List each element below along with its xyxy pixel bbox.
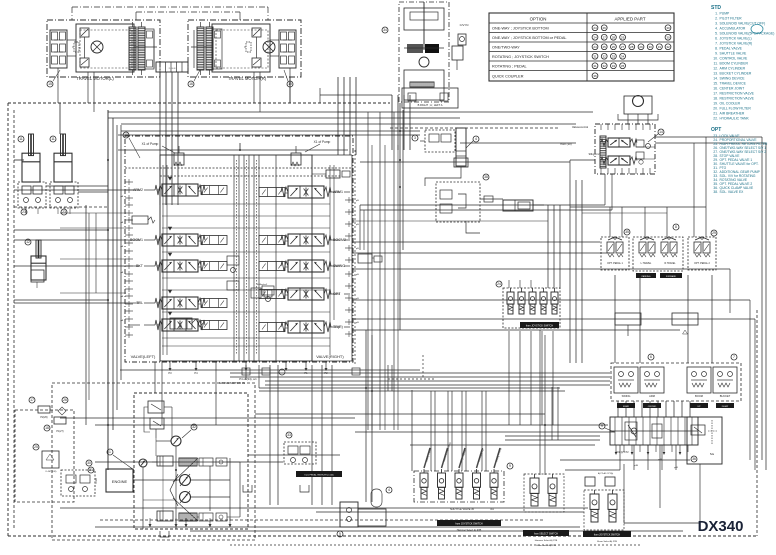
- accumulator 4a: [456, 128, 466, 166]
- svg-text:24: 24: [593, 26, 597, 30]
- svg-text:6: 6: [650, 355, 652, 359]
- svg-text:PARKING: PARKING: [642, 275, 651, 278]
- svg-text:SOLENOID VALVE(5PC/PACKAGE): SOLENOID VALVE(5PC/PACKAGE): [720, 32, 775, 36]
- accumulator 4b: [371, 489, 382, 507]
- svg-text:P3: P3: [168, 371, 172, 375]
- pedal valve 8 block: [402, 88, 458, 108]
- ref 38: [483, 174, 489, 180]
- hammer shuttle unit 4: [473, 473, 481, 487]
- svg-text:BOOM1: BOOM1: [130, 238, 143, 242]
- svg-text:DX340: DX340: [698, 518, 744, 535]
- svg-text:SWAY: SWAY: [623, 405, 630, 408]
- svg-text:TR(R): TR(R): [333, 325, 343, 329]
- wire sol block feeds: [547, 205, 549, 288]
- spool right TR(R): [288, 321, 324, 333]
- svg-text:10: 10: [124, 133, 128, 137]
- svg-text:UP: UP: [697, 406, 701, 408]
- valve inner right rail: [329, 165, 331, 355]
- svg-text:90kg/cm²: 90kg/cm²: [589, 152, 600, 156]
- lock valve 23b: [50, 182, 78, 208]
- rotating sol valve 33: [286, 432, 292, 438]
- svg-text:11: 11: [19, 137, 23, 141]
- table circles row 1: [592, 25, 598, 31]
- spool right BOOM2: [288, 234, 324, 246]
- hammer shuttle box: [414, 471, 504, 502]
- svg-text:14: 14: [659, 130, 663, 134]
- wire mid bottom bus: [95, 424, 608, 426]
- wire valve top feeds: [118, 149, 348, 151]
- svg-text:38: 38: [484, 175, 488, 179]
- svg-text:9: 9: [339, 532, 341, 536]
- swing spool B: [608, 156, 630, 165]
- svg-text:TRAVEL MOTOR(R): TRAVEL MOTOR(R): [228, 76, 267, 81]
- svg-text:23: 23: [22, 210, 26, 214]
- swing motor: [633, 96, 644, 107]
- svg-text:36: 36: [593, 74, 597, 78]
- svg-text:24: 24: [593, 45, 597, 49]
- ref 24b: [496, 281, 502, 287]
- svg-text:52a: 52a: [710, 453, 715, 456]
- wire outer dashed envelope left: [7, 103, 9, 536]
- rotating device linkage: [404, 8, 444, 30]
- svg-text:PEDAL VALVE: PEDAL VALVE: [720, 47, 743, 51]
- spool left BOOM1: [162, 234, 198, 246]
- swing check valves: [636, 140, 644, 147]
- right port stubs: [345, 199, 353, 201]
- wire travel R lines down: [337, 77, 339, 155]
- wire valve right exits: [352, 241, 600, 243]
- swing spool A: [608, 138, 630, 147]
- pilot relief top: [148, 401, 164, 413]
- wire valve to bottom verticals: [269, 365, 271, 505]
- manifold block B: [672, 313, 698, 325]
- hammer shuttle unit 2: [438, 473, 446, 487]
- pump assembly box: [134, 393, 248, 529]
- spool left TRL: [162, 297, 198, 309]
- svg-text:34: 34: [621, 54, 625, 58]
- spool right OPT: [288, 288, 324, 300]
- table circles row 2: [592, 34, 598, 40]
- main valve right frame: [275, 155, 277, 361]
- svg-text:RESTRICTION VALVE: RESTRICTION VALVE: [720, 97, 755, 101]
- regulator 1: [157, 456, 173, 466]
- svg-text:QUICK COUPLER: QUICK COUPLER: [492, 74, 524, 78]
- svg-text:8: 8: [675, 225, 677, 229]
- wire right mid verticals: [569, 180, 571, 363]
- svg-text:17.: 17.: [713, 92, 718, 96]
- rotating device cylinders: [407, 44, 423, 53]
- wire select feeds down: [539, 330, 541, 475]
- svg-text:1: 1: [109, 450, 111, 454]
- svg-text:8.: 8.: [715, 47, 718, 51]
- svg-text:31: 31: [658, 45, 662, 49]
- svg-text:34: 34: [612, 64, 616, 68]
- svg-text:PILOT FILTER: PILOT FILTER: [720, 17, 743, 21]
- joystick unit BUCKET: [713, 367, 737, 393]
- svg-text:B RIGHT ; A ; LEFT A: B RIGHT ; A ; LEFT A: [418, 103, 443, 107]
- svg-text:25: 25: [603, 45, 607, 49]
- negative control relief: [251, 288, 261, 298]
- ref 4b: [386, 487, 392, 493]
- select label box: [523, 530, 569, 536]
- svg-text:1.: 1.: [715, 12, 718, 16]
- ref 16: [188, 81, 194, 87]
- spool left travel-straight: [162, 319, 198, 331]
- pilot pump: [139, 459, 147, 467]
- svg-text:24: 24: [593, 35, 597, 39]
- ref 9r: [599, 423, 605, 429]
- svg-text:OPT. PEDAL 1: OPT. PEDAL 1: [607, 262, 623, 265]
- label parking fwd: [636, 273, 656, 278]
- svg-text:22.: 22.: [713, 117, 718, 121]
- svg-text:ARM: ARM: [649, 394, 655, 398]
- wire horizontals into swing: [108, 111, 593, 113]
- svg-text:P1(27): P1(27): [56, 430, 63, 433]
- ref 4a: [473, 136, 479, 142]
- tank symbols bottom: [243, 485, 252, 492]
- rotating device lower body: [404, 70, 444, 100]
- svg-text:17: 17: [30, 398, 34, 402]
- annotation circle top right: [751, 25, 763, 34]
- spool left BKT: [162, 260, 198, 272]
- gear pump 32: [171, 436, 181, 446]
- shuttle grid pins: [615, 445, 617, 452]
- wire double bus y387: [259, 387, 560, 389]
- pump wires: [133, 479, 179, 481]
- main relief valve right: [291, 153, 301, 165]
- sol package spool 2: [518, 292, 525, 304]
- solenoid cutoff valve 3: [425, 130, 455, 152]
- regulator 2: [157, 511, 173, 521]
- rotating device motor circle: [419, 57, 429, 67]
- svg-text:38.: 38.: [713, 190, 718, 194]
- svg-text:33: 33: [287, 433, 291, 437]
- svg-text:SWING: SWING: [622, 394, 631, 398]
- wire dashed mid-left horizontal: [14, 206, 108, 208]
- svg-text:4: 4: [475, 137, 477, 141]
- main valve main frame: [160, 155, 312, 361]
- restriction cylinder: [503, 200, 533, 211]
- svg-text:OPT. PEDAL 2: OPT. PEDAL 2: [694, 262, 710, 265]
- pump swash links: [170, 474, 178, 506]
- joystick unit SWING: [614, 367, 638, 393]
- svg-text:ONE-WAY ; JOYSTICK BOTTOM: ONE-WAY ; JOYSTICK BOTTOM: [492, 26, 549, 30]
- br outer box: [584, 490, 624, 530]
- ref 8: [673, 224, 679, 230]
- swing port pins: [600, 124, 602, 130]
- svg-text:HYDRAULIC TANK: HYDRAULIC TANK: [720, 117, 750, 121]
- svg-text:ARM1: ARM1: [333, 190, 343, 194]
- main relief valve left: [174, 153, 184, 165]
- svg-text:FULL FLOW FILTER: FULL FLOW FILTER: [720, 107, 752, 111]
- svg-text:APPLIED PART: APPLIED PART: [614, 17, 645, 22]
- svg-text:CONTROL VALVE: CONTROL VALVE: [720, 57, 749, 61]
- svg-text:from JOYSTICK SWITCH: from JOYSTICK SWITCH: [526, 325, 554, 328]
- below valve check symbols: [242, 368, 250, 375]
- aux valve right of valve: [358, 254, 372, 263]
- wire outer dashed envelope bottom: [8, 535, 757, 537]
- svg-text:24: 24: [497, 282, 501, 286]
- ref 10: [123, 132, 129, 138]
- svg-text:35: 35: [621, 64, 625, 68]
- svg-text:R.TRAVEL: R.TRAVEL: [664, 262, 676, 265]
- svg-text:X1 of Pump: X1 of Pump: [314, 140, 331, 144]
- svg-text:OPTION: OPTION: [530, 17, 547, 22]
- wire right bottom links: [623, 464, 625, 523]
- center joint box: [156, 62, 188, 72]
- svg-text:30: 30: [666, 26, 670, 30]
- cv filter: [458, 34, 466, 45]
- br shuttle units: [590, 494, 599, 509]
- shuttle grid box: [610, 417, 698, 445]
- svg-text:26: 26: [612, 45, 616, 49]
- svg-text:30: 30: [649, 45, 653, 49]
- ref 29: [711, 230, 717, 236]
- svg-text:ARM CYLINDER: ARM CYLINDER: [720, 67, 746, 71]
- cv valve: [452, 46, 463, 60]
- valve mid check cluster: [227, 256, 239, 265]
- svg-text:16.: 16.: [713, 87, 718, 91]
- rotating label box: [296, 471, 342, 477]
- table circles row 6: [592, 73, 598, 79]
- ref 19: [287, 81, 293, 87]
- opt pedal valve 1 block: [601, 237, 629, 270]
- svg-text:34: 34: [383, 28, 387, 32]
- svg-text:D-N/T(L/R): D-N/T(L/R): [46, 471, 57, 473]
- main pump 2: [180, 492, 191, 503]
- joystick unit ARM: [640, 367, 664, 393]
- svg-text:7.: 7.: [715, 42, 718, 46]
- svg-text:3: 3: [414, 136, 416, 140]
- ref 15: [47, 81, 53, 87]
- svg-text:12: 12: [26, 240, 30, 244]
- svg-text:DUMP: DUMP: [722, 406, 729, 408]
- sol valve 38 block: [436, 182, 480, 222]
- svg-text:9: 9: [509, 464, 511, 468]
- svg-text:SOL Q/V P2: SOL Q/V P2: [615, 451, 629, 454]
- ref 34t: [382, 27, 388, 33]
- shuttle grid internals: [614, 417, 616, 445]
- svg-text:9: 9: [601, 424, 603, 428]
- svg-text:ONE/TWO-WAY: ONE/TWO-WAY: [492, 45, 520, 49]
- restriction valve 17: [29, 397, 35, 403]
- svg-text:VALVE(RIGHT): VALVE(RIGHT): [316, 354, 344, 359]
- svg-text:25: 25: [34, 445, 38, 449]
- svg-text:ROTATING ; PEDAL: ROTATING ; PEDAL: [492, 64, 527, 68]
- svg-text:5.: 5.: [715, 32, 718, 36]
- svg-text:29: 29: [621, 35, 625, 39]
- svg-text:X1 of Pump: X1 of Pump: [142, 142, 159, 146]
- svg-text:29: 29: [639, 45, 643, 49]
- valve internal horizontals: [162, 203, 330, 205]
- svg-text:P1: P1: [304, 371, 308, 375]
- valve internal vertical pump lines: [233, 155, 235, 361]
- svg-text:p4B: p4B: [634, 465, 638, 467]
- svg-text:STD: STD: [711, 5, 721, 11]
- svg-text:20.: 20.: [713, 107, 718, 111]
- svg-text:30: 30: [87, 461, 91, 465]
- swing lines up: [627, 114, 629, 124]
- svg-text:BOOM2: BOOM2: [333, 238, 346, 242]
- wire bottom bus y505: [60, 507, 588, 509]
- wire top assembly lines down: [391, 95, 393, 150]
- svg-text:SHUTTLE VALVE: SHUTTLE VALVE: [720, 52, 748, 56]
- svg-text:ACCUMULATOR: ACCUMULATOR: [720, 27, 746, 31]
- svg-text:from PEDAL SWITCH for (34): from PEDAL SWITCH for (34): [305, 474, 334, 477]
- svg-text:35: 35: [625, 230, 629, 234]
- option table row lines: [489, 22, 674, 24]
- wire joystick to grid: [617, 401, 619, 417]
- svg-text:P4: P4: [194, 371, 198, 375]
- sol package spool 3: [529, 292, 536, 304]
- wire left cylinder feeds: [14, 159, 24, 161]
- svg-text:4.: 4.: [715, 27, 718, 31]
- svg-text:BKT: BKT: [136, 264, 144, 268]
- svg-text:4: 4: [388, 488, 390, 492]
- spool right ARM1: [288, 186, 324, 198]
- one-two select 26: [62, 397, 68, 403]
- wire shuttle feeds down: [430, 391, 432, 471]
- wire below valve ports: [120, 369, 420, 371]
- hammer shuttle unit 3: [455, 473, 463, 487]
- svg-text:15.: 15.: [713, 82, 718, 86]
- joystick assembly box: [611, 363, 741, 401]
- svg-text:SWING DEVICE: SWING DEVICE: [720, 77, 746, 81]
- svg-text:SWING: SWING: [333, 264, 345, 268]
- svg-text:29: 29: [712, 231, 716, 235]
- svg-text:6.: 6.: [715, 37, 718, 41]
- svg-text:10.: 10.: [713, 57, 718, 61]
- sol package spool 4: [540, 292, 547, 304]
- left port stubs: [125, 181, 133, 183]
- ref 35: [624, 229, 630, 235]
- svg-text:9.: 9.: [715, 52, 718, 56]
- svg-text:PUMP: PUMP: [720, 12, 731, 16]
- ref 11a: [18, 136, 24, 142]
- svg-text:BUCKET CYLINDER: BUCKET CYLINDER: [720, 72, 752, 76]
- wire acc drop: [425, 167, 461, 186]
- svg-text:11: 11: [51, 137, 55, 141]
- svg-text:BOOM: BOOM: [695, 394, 703, 398]
- svg-text:AIR BREATHER: AIR BREATHER: [720, 112, 745, 116]
- table circles row 3: [592, 44, 598, 50]
- ref 7: [731, 354, 737, 360]
- wire envelope right: [756, 310, 758, 536]
- ref 11b: [50, 136, 56, 142]
- arm cylinder: [38, 240, 40, 258]
- svg-text:18.: 18.: [713, 97, 718, 101]
- svg-text:SOL. VALVE EX: SOL. VALVE EX: [720, 190, 745, 194]
- boom cylinder 1: [30, 134, 32, 156]
- svg-text:31: 31: [593, 64, 597, 68]
- svg-text:from SELECT SWITCH: from SELECT SWITCH: [534, 533, 558, 536]
- wire joystick col verticals: [614, 275, 616, 363]
- rotating device box: [399, 2, 449, 102]
- svg-text:340kg/cm²: 340kg/cm²: [257, 283, 267, 286]
- ref 12: [25, 239, 31, 245]
- svg-text:CROWD: CROWD: [648, 406, 657, 408]
- left lower dashed box: [15, 410, 74, 502]
- svg-text:SHUTTLE VALVE 30: SHUTTLE VALVE 30: [450, 507, 475, 511]
- svg-text:26: 26: [63, 398, 67, 402]
- svg-text:OIL COOLER: OIL COOLER: [720, 102, 741, 106]
- svg-text:2.: 2.: [715, 17, 718, 21]
- select outer box: [524, 474, 564, 512]
- svg-text:SOLENOID VALVE(CUT OFF): SOLENOID VALVE(CUT OFF): [720, 22, 766, 26]
- svg-text:28: 28: [630, 45, 634, 49]
- ref 23a: [21, 209, 27, 215]
- travel pedal block: [633, 237, 683, 271]
- arm cylinder base box: [31, 270, 44, 282]
- svg-text:Valvecontrol: Valvecontrol: [572, 125, 589, 129]
- wire right bundle vertical: [761, 137, 763, 460]
- svg-text:Hammer Select A) P2B: Hammer Select A) P2B: [457, 529, 482, 532]
- wire grid exits down: [619, 445, 621, 470]
- wire long horizontal y135: [118, 134, 420, 136]
- svg-text:19.: 19.: [713, 102, 718, 106]
- ref 14: [658, 129, 664, 135]
- select shuttle units: [530, 478, 539, 493]
- svg-text:VALVE(LEFT): VALVE(LEFT): [131, 354, 156, 359]
- svg-text:23: 23: [62, 210, 66, 214]
- ref 1: [107, 449, 113, 455]
- svg-text:18: 18: [45, 426, 49, 430]
- straight travel spool: [170, 318, 192, 329]
- svg-text:A) P2-A1 OPT(b): A) P2-A1 OPT(b): [598, 472, 614, 475]
- valve right relief cluster: [326, 170, 340, 178]
- wire valve left exits: [14, 189, 128, 191]
- svg-text:27: 27: [603, 35, 607, 39]
- joystick unit BOOM: [687, 367, 711, 393]
- svg-text:7: 7: [733, 355, 735, 359]
- svg-text:JOYSTICK VALVE(R): JOYSTICK VALVE(R): [720, 42, 753, 46]
- ref 3: [412, 135, 418, 141]
- wire main pilot bus vertical x108: [107, 110, 109, 470]
- svg-text:27: 27: [621, 45, 625, 49]
- br top valves: [585, 477, 595, 486]
- svg-text:from JOYSTICK SWITCH: from JOYSTICK SWITCH: [594, 534, 621, 537]
- hammer label box: [437, 520, 501, 526]
- svg-text:L.TRAVEL: L.TRAVEL: [641, 262, 652, 265]
- main valve outer box: [125, 136, 353, 362]
- junction dots: [399, 130, 401, 132]
- boom priority valve: [132, 216, 148, 224]
- hammer shuttle unit 5: [490, 473, 498, 487]
- travel motor L assembly: [47, 20, 160, 77]
- svg-text:Shear Select A) P2B: Shear Select A) P2B: [536, 544, 556, 547]
- svg-text:13.: 13.: [713, 72, 718, 76]
- wire swing to right edge: [655, 136, 762, 138]
- hammer shuttle unit 1: [420, 473, 428, 487]
- wire center joint lines down: [159, 72, 161, 205]
- svg-text:FORWARD: FORWARD: [666, 275, 677, 278]
- wire pilot bus x113: [112, 118, 114, 430]
- ref 32: [191, 424, 197, 430]
- ref 6: [648, 354, 654, 360]
- svg-text:ONE-WAY ; JOYSTICK BOTTOM or P: ONE-WAY ; JOYSTICK BOTTOM or PEDAL: [492, 36, 567, 40]
- valve upper dashed rail: [125, 167, 352, 169]
- wire lower bus y460: [95, 461, 283, 463]
- svg-text:31: 31: [593, 54, 597, 58]
- wire right long verticals mid: [367, 112, 369, 430]
- valve internal vertical dotted: [236, 160, 238, 355]
- svg-text:from (10): from (10): [560, 142, 571, 146]
- svg-text:33: 33: [612, 54, 616, 58]
- svg-text:BOOM CYLINDER: BOOM CYLINDER: [720, 62, 749, 66]
- swing control box: [595, 124, 655, 174]
- travel motor R drops: [253, 72, 255, 103]
- ref 31 PTO: [88, 467, 94, 473]
